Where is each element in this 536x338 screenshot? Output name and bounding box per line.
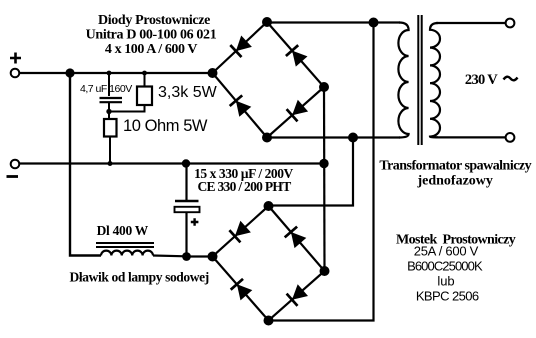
bridge 2 frame [213,206,325,321]
node bridge1 left [208,68,218,78]
resistor R2 10 Ohm body [104,119,117,137]
wire: AC1 vertical down to bridge2 bottom [269,23,374,321]
diode D5 [229,221,251,243]
capacitor C2 top plate [175,200,199,202]
inductor L1 core lines [96,243,154,247]
diode D4 [287,100,309,122]
wire: secondary bottom lead [436,136,506,138]
svg-text:4,7 uF 160V: 4,7 uF 160V [80,83,132,95]
diode D6 [285,227,307,249]
terminal secondary bottom [506,133,515,142]
wire: choke to bridge2 left [153,254,186,257]
wire: bridge1 top to transformer [267,21,400,23]
minus sign [7,175,19,178]
svg-text:10 Ohm 5W: 10 Ohm 5W [123,117,208,135]
plus sign [10,53,21,64]
node junction on plus rail [65,68,74,77]
capacitor C1 4,7uF plates [100,98,123,102]
label C2 plus [191,218,199,225]
wire: minus rail [20,162,325,164]
plus terminal [11,69,20,78]
wire: C1 bottom to junction [108,103,110,118]
svg-text:Dławik od lampy sodowej: Dławik od lampy sodowej [70,270,209,285]
svg-text:KBPC 2506: KBPC 2506 [416,289,479,304]
transformer T1 secondary winding [430,23,440,137]
transformer T1 primary winding [398,23,408,138]
node bridge2 left [208,252,218,262]
resistor R1 3,3k body [137,87,152,106]
svg-text:jednofazowy: jednofazowy [416,174,492,189]
svg-text:3,3k 5W: 3,3k 5W [158,84,218,101]
wire: plus rail [20,72,213,74]
wire: R2 bottom to minus rail [109,137,111,164]
transformer T1 core [418,15,421,145]
svg-text:CE 330 / 200 PHT: CE 330 / 200 PHT [197,179,291,194]
node electrolytic bottom [182,252,191,261]
bridge 1 frame [213,22,325,138]
wire: to bridge2 left corner [186,255,213,257]
svg-text:Diody Prostownicze: Diody Prostownicze [98,13,210,28]
node R2 on minus rail [108,161,113,166]
svg-text:4 x 100 A / 600 V: 4 x 100 A / 600 V [105,42,197,57]
node electrolytic branch top [182,159,190,167]
wire: electrolytic bottom lead [185,212,187,256]
svg-text:lub: lub [437,274,454,289]
terminal secondary top [506,19,515,28]
svg-text:Dl 400 W: Dl 400 W [97,223,149,238]
wire: R1 bottom L to junction [110,105,145,112]
node minus rail meets vertical [319,159,328,168]
inductor L1 loops [101,251,153,256]
diode D3 [230,95,252,116]
wire: left vertical to choke [70,73,101,256]
capacitor C2 bottom plate (hollow) [175,207,200,212]
diode D8 [287,284,308,306]
node bridge1 right [319,82,329,92]
node R1 top [142,71,147,76]
wire: electrolytic top lead [185,164,187,202]
svg-text:25A / 600 V: 25A / 600 V [414,244,479,259]
wire: capacitor C1 branch top [108,73,110,96]
node bridge1 bottom [262,133,272,143]
wire: bridge1 right down to bridge2 right [323,87,326,271]
node bridge1 top [262,17,272,27]
svg-text:Transformator spawalniczy: Transformator spawalniczy [379,159,531,174]
node C1/R1 junction [106,109,111,114]
svg-text:Unitra D 00-100 06 021: Unitra D 00-100 06 021 [86,28,217,43]
wire: resistor R1 3,3k branch [144,73,146,87]
node bridge2 bottom [264,316,274,326]
diode D2 [286,45,308,66]
svg-text:B600C25000K: B600C25000K [407,259,483,274]
svg-text:230 V: 230 V [465,72,498,88]
node C1 top [107,71,112,76]
diode D1 [230,36,252,58]
minus terminal [11,160,20,169]
node bridge2 top [264,201,274,211]
node bridge2 right [320,266,330,276]
wire: bridge1 bottom to transformer [267,136,400,138]
wire: secondary top lead [436,22,506,24]
node AC2 junction [348,133,358,143]
diode D7 [231,279,253,301]
label AC tilde [504,77,518,81]
wire: AC2 down-left to bridge2 top [269,138,354,206]
node AC1 junction [369,18,379,28]
